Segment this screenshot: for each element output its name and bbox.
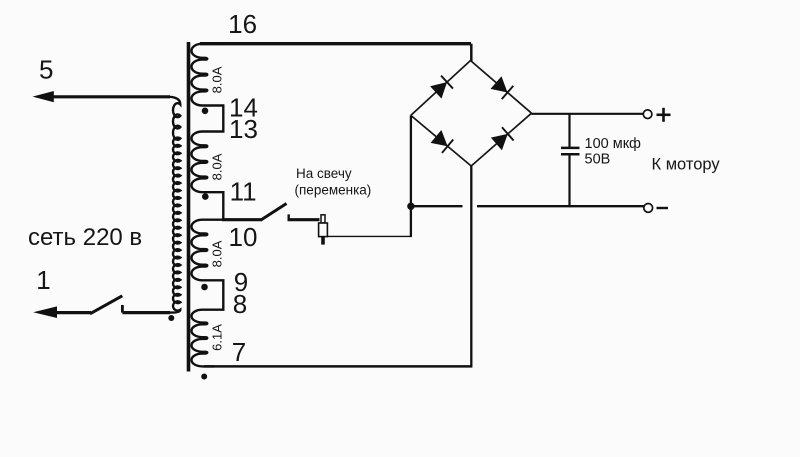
svg-text:8.0А: 8.0А (210, 240, 225, 267)
svg-text:1: 1 (36, 265, 50, 295)
svg-text:16: 16 (228, 9, 257, 39)
svg-text:8.0А: 8.0А (210, 66, 225, 93)
svg-text:7: 7 (232, 337, 246, 367)
svg-text:13: 13 (229, 114, 258, 144)
svg-text:(переменка): (переменка) (295, 183, 372, 198)
svg-text:10: 10 (229, 222, 258, 252)
svg-text:50В: 50В (585, 152, 611, 168)
svg-text:100 мкф: 100 мкф (585, 136, 642, 152)
svg-text:К мотору: К мотору (652, 156, 721, 174)
svg-text:5: 5 (39, 54, 53, 84)
svg-text:11: 11 (230, 176, 257, 206)
svg-text:6.1А: 6.1А (210, 324, 225, 351)
svg-text:8.0А: 8.0А (210, 153, 225, 180)
svg-text:На свечу: На свечу (296, 166, 352, 181)
svg-text:сеть 220 в: сеть 220 в (28, 224, 142, 251)
svg-text:8: 8 (233, 289, 247, 319)
